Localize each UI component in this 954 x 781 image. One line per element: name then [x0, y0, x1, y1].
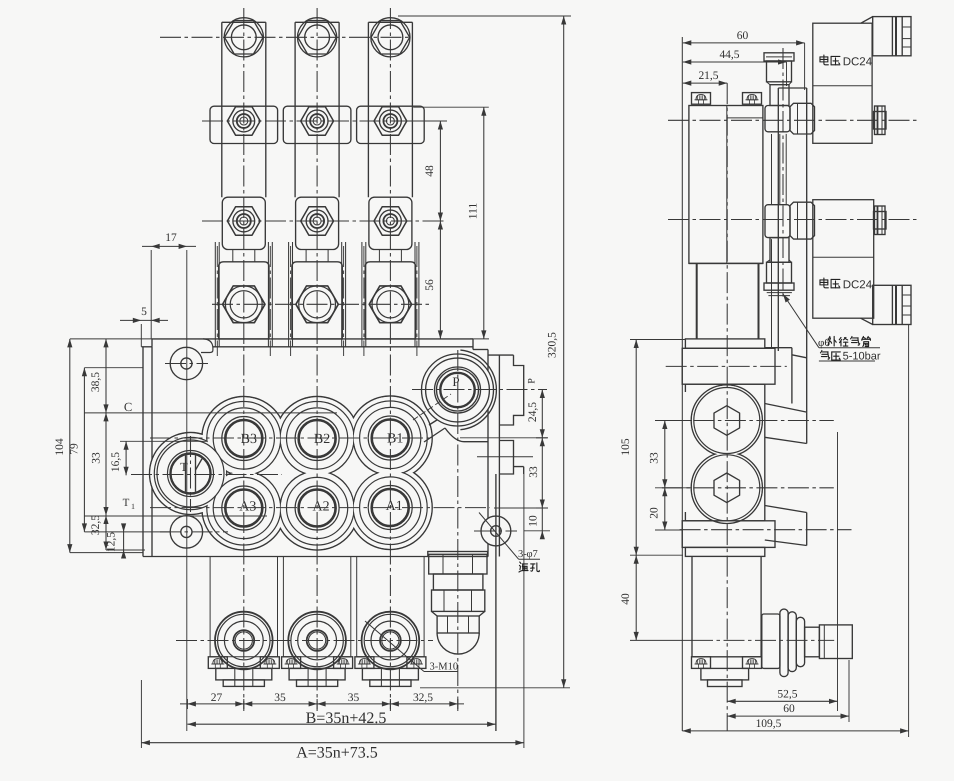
svg-text:33: 33: [649, 452, 661, 464]
side port hex plug upper: [714, 406, 740, 436]
dim 16.5: [110, 441, 129, 475]
label air pressure 5-10bar: [820, 351, 829, 360]
svg-text:33: 33: [91, 452, 103, 464]
svg-text:44,5: 44,5: [719, 49, 739, 61]
P to B1 diagonal centerline: [413, 394, 451, 420]
dim 20: [649, 488, 684, 530]
svg-text:38,5: 38,5: [90, 372, 102, 392]
dim 56: [424, 221, 443, 339]
dim 320.5: [398, 16, 571, 688]
svg-text:DC24: DC24: [843, 56, 873, 68]
solenoid 2 block: [813, 200, 874, 319]
side foot screw right: [743, 657, 762, 669]
section 2 upper hex fitting: [301, 107, 334, 135]
section 1 tie rods: [215, 242, 272, 347]
section 1 upper hex fitting: [227, 107, 260, 135]
svg-text:60: 60: [783, 703, 795, 715]
section 1 bottom cap: [215, 612, 273, 670]
svg-text:B2: B2: [314, 432, 330, 447]
section 1 bottom bracket: [216, 668, 272, 686]
side port centerline lower: [662, 487, 834, 489]
handle bellows ring 3: [788, 612, 796, 672]
port boss cloverleaf inner contour: [154, 401, 427, 545]
cylinder rod lines: [689, 263, 763, 339]
air fitting bottom cap: [764, 283, 794, 296]
svg-text:1: 1: [131, 502, 135, 511]
top caps centerline: [160, 36, 412, 38]
section 2 tie rod centerlines: [291, 246, 344, 356]
air union nut top: [790, 103, 815, 134]
section 2 neck: [306, 250, 328, 262]
side foot screw left: [692, 657, 711, 669]
section 3 neck: [379, 250, 401, 262]
svg-text:P: P: [452, 374, 459, 389]
air line centerline: [782, 48, 784, 298]
side body bottom flange: [682, 521, 775, 548]
section 1 middle block: [222, 197, 265, 249]
dim 44.5: [683, 49, 787, 86]
svg-text:111: 111: [468, 203, 480, 220]
section 2 middle hex fitting: [301, 207, 334, 235]
section 2 top strap bracket: [295, 22, 339, 197]
handle bellows ring 4: [796, 617, 804, 666]
B1 port: [360, 407, 421, 468]
bolt centerline top-left: [165, 363, 208, 365]
svg-text:109,5: 109,5: [756, 718, 782, 730]
spool centerline vertical: [726, 83, 728, 731]
section 3 top cap hex nut: [371, 18, 410, 57]
dim 5: [120, 306, 168, 347]
solenoid 2 nut: [874, 206, 887, 235]
row4 centerline: [212, 303, 432, 305]
flange centerline: [666, 365, 787, 367]
svg-text:A=35n+73.5: A=35n+73.5: [296, 744, 378, 761]
dim 52.5: [727, 432, 837, 711]
svg-text:P: P: [527, 378, 538, 384]
svg-text:DC24: DC24: [843, 279, 873, 291]
svg-text:56: 56: [424, 279, 436, 291]
dim 60 top: [683, 30, 805, 90]
right side plate lower: [499, 441, 523, 475]
svg-text:A1: A1: [386, 499, 403, 514]
A3 port: [213, 477, 274, 538]
solenoid 1 block: [813, 23, 872, 143]
handle knob: [819, 625, 852, 659]
solenoid 2 label voltage DC24: [820, 278, 828, 288]
section 3 top strap bracket: [368, 22, 412, 197]
dim chain 27 35 35 32.5: [180, 692, 464, 709]
svg-text:17: 17: [165, 232, 177, 244]
section 1 lower block: [219, 262, 269, 339]
bottom caps centerline: [176, 640, 433, 642]
section 3 upper valve block: [357, 106, 425, 143]
pneumatic cylinder block: [689, 106, 763, 264]
quatrefoil contour right: [330, 444, 378, 502]
side port hex plug lower: [714, 473, 740, 503]
section 1 right foot screw: [260, 657, 279, 669]
section 1 left foot screw: [208, 657, 227, 669]
air tube mid: [770, 238, 789, 263]
side wedge bracket middle: [765, 404, 807, 444]
section 1 large hex nut: [223, 286, 265, 323]
T port centerline horizontal: [131, 474, 282, 476]
dim 105: [620, 340, 685, 556]
dim 21.5: [683, 70, 727, 86]
dim 109.5: [682, 325, 908, 737]
solenoid 1 label voltage DC24: [820, 55, 828, 65]
leader 3-phi7 through hole: [479, 513, 540, 561]
section 3 middle hex fitting: [374, 207, 407, 235]
bolt centerline bottom-left: [160, 531, 228, 533]
section 1 upper valve block: [210, 106, 278, 143]
svg-text:T: T: [123, 497, 130, 509]
leader air pipe: [783, 294, 880, 361]
dim 40: [620, 555, 692, 640]
svg-text:79: 79: [69, 443, 81, 455]
dim 33 left: [91, 413, 109, 516]
svg-text:320,5: 320,5: [547, 332, 559, 358]
svg-text:104: 104: [54, 438, 66, 456]
svg-text:5-10bar: 5-10bar: [843, 351, 881, 363]
section 2 large hex nut: [296, 286, 338, 323]
A2 port: [287, 477, 348, 538]
side lower reference centerline: [680, 529, 852, 531]
section 1 bottom housing: [210, 557, 277, 657]
svg-text:3-M10: 3-M10: [429, 662, 458, 673]
section 3 bottom cap: [362, 612, 420, 670]
section 2 right foot screw: [334, 657, 353, 669]
dim 32.5 left: [90, 515, 109, 550]
section centerline 2: [316, 8, 318, 711]
section 2 bottom bracket: [289, 668, 345, 686]
bottom-left mounting bolt: [170, 516, 202, 548]
air fitting bottom body: [767, 260, 792, 283]
section centerline 1: [243, 8, 245, 711]
A row centerline: [150, 507, 490, 509]
side view left extension line: [681, 37, 683, 731]
dim 111: [413, 107, 489, 339]
dim A formula: [141, 474, 524, 762]
svg-text:10: 10: [528, 515, 540, 527]
section 2 bottom cap: [288, 612, 346, 670]
section 3 middle block: [369, 197, 412, 249]
section 3 tie rod centerlines: [364, 246, 417, 356]
left extension lines: [70, 339, 337, 553]
svg-text:B1: B1: [387, 431, 403, 446]
label through-hole (tong kong): [519, 562, 528, 572]
svg-text:48: 48: [424, 165, 436, 177]
relief valve taper: [432, 611, 485, 616]
section 3 upper hex fitting: [374, 107, 407, 135]
svg-text:35: 35: [348, 692, 360, 704]
section 3 lower block: [365, 262, 415, 339]
svg-text:52,5: 52,5: [777, 688, 797, 700]
valve body top plate: [152, 339, 488, 353]
dim 38.5: [90, 339, 109, 413]
leader 3-M10: [365, 621, 458, 673]
side wedge bracket lower: [765, 506, 807, 546]
side body top plate: [685, 339, 764, 348]
svg-text:A2: A2: [313, 499, 330, 514]
row3 centerline: [202, 220, 447, 222]
row2 centerline: [202, 120, 447, 122]
svg-text:5: 5: [141, 306, 147, 318]
T port: [157, 440, 224, 507]
handle stem: [805, 627, 820, 657]
dim 79: [69, 368, 88, 532]
section 2 upper valve block: [283, 106, 351, 143]
handle bellows ring 2: [780, 609, 788, 677]
air union nut mid: [790, 202, 815, 239]
section 1 tie rod centerlines: [217, 246, 270, 356]
solenoid 2 centerline: [668, 219, 920, 221]
solenoid 1 nut: [874, 106, 887, 135]
section 3 large hex nut: [369, 286, 411, 323]
solenoid 1 connector: [861, 17, 911, 56]
relief valve upper tube: [433, 574, 483, 590]
section 2 tie rods: [289, 242, 346, 347]
relief valve top collar: [428, 552, 488, 557]
svg-text:21,5: 21,5: [698, 70, 718, 82]
section 1 top cap hex nut: [224, 18, 263, 57]
bolt centerline bottom-right: [474, 530, 517, 532]
top-left mounting bolt: [170, 347, 202, 379]
svg-text:105: 105: [620, 438, 632, 456]
B2 port: [287, 408, 348, 469]
valve body outline: [142, 347, 489, 557]
section 2 top cap hex nut: [298, 18, 337, 57]
svg-text:32,5: 32,5: [413, 692, 433, 704]
relief valve dome cap: [437, 633, 479, 654]
port boss cloverleaf outer contour: [150, 396, 433, 550]
svg-text:33: 33: [528, 466, 540, 478]
svg-text:24,5: 24,5: [527, 402, 539, 422]
P port neck: [424, 413, 488, 442]
air elbow top: [765, 106, 790, 132]
side top screw left: [692, 93, 711, 105]
svg-text:12,5: 12,5: [106, 532, 118, 552]
quatrefoil contour left: [256, 444, 304, 503]
dim 12.5: [106, 523, 127, 558]
svg-text:16,5: 16,5: [110, 452, 122, 472]
B3 port: [213, 408, 274, 469]
side right vertical plate: [765, 88, 807, 412]
T port centerline vertical: [190, 436, 192, 512]
section 2 middle block: [296, 197, 339, 249]
handle bellows ring 1: [762, 614, 780, 668]
P port boss: [422, 350, 497, 430]
right plate mid mark: [477, 456, 533, 458]
dim B formula: [187, 710, 495, 727]
handle centerline: [692, 639, 834, 641]
section 2 left foot screw: [282, 657, 301, 669]
air pipe between elbows: [780, 134, 786, 205]
side body top flange: [682, 348, 775, 384]
section 2 lower block: [292, 262, 342, 339]
svg-text:27: 27: [211, 692, 223, 704]
side lower column: [692, 556, 761, 656]
side body main block: [685, 384, 764, 521]
section 3 bottom housing: [357, 557, 424, 657]
side top screw right: [743, 93, 762, 105]
svg-text:35: 35: [274, 692, 286, 704]
air elbow mid: [765, 205, 790, 238]
dim 60 bottom: [727, 660, 849, 722]
dim 48: [410, 121, 447, 221]
section 3 bottom bracket: [362, 668, 418, 686]
svg-text:C: C: [124, 400, 132, 414]
section 1 middle hex fitting: [227, 207, 260, 235]
A1 port: [360, 477, 421, 538]
dim 33 side: [649, 421, 693, 488]
svg-text:B3: B3: [241, 432, 257, 447]
side body bottom plate: [685, 547, 764, 556]
relief valve lower hex: [437, 616, 479, 633]
section 1 neck: [233, 250, 255, 262]
cylinder rear edge: [771, 134, 773, 348]
dim chain 24.5 33 10: [460, 378, 550, 540]
section centerline 3: [389, 8, 391, 711]
dim 104: [54, 339, 72, 553]
section 3 left foot screw: [355, 657, 374, 669]
air fitting top tube: [770, 85, 789, 106]
side port bosses: [691, 385, 762, 523]
section 1 top strap bracket: [222, 22, 266, 197]
bottom-right through hole bolt: [481, 516, 511, 546]
side port centerline upper: [662, 420, 834, 422]
cloverleaf web fill: [266, 459, 294, 487]
section 2 bottom housing: [283, 557, 350, 657]
svg-text:60: 60: [737, 30, 749, 42]
air fitting top cap: [764, 53, 794, 61]
side bottom bracket: [701, 668, 749, 686]
svg-text:B=35n+42.5: B=35n+42.5: [306, 710, 387, 727]
relief valve large hex nut: [429, 554, 487, 574]
svg-text:A3: A3: [239, 499, 256, 514]
solenoid 1 centerline: [668, 119, 920, 121]
air fitting top body: [767, 61, 792, 85]
svg-text:φ7: φ7: [526, 549, 537, 560]
relief valve centerline vertical: [457, 350, 459, 711]
svg-text:20: 20: [649, 507, 661, 519]
relief valve middle hex: [432, 590, 485, 611]
svg-text:40: 40: [620, 593, 632, 605]
dim 17: [142, 232, 196, 731]
section 3 tie rods: [362, 242, 419, 347]
section 3 right foot screw: [407, 657, 426, 669]
P port centerline horizontal: [412, 389, 547, 391]
right side plate upper: [488, 355, 524, 731]
solenoid 2 connector: [861, 285, 911, 324]
B row centerline: [150, 437, 433, 439]
